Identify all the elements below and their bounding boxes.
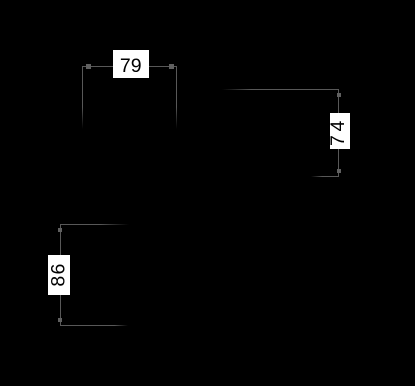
label 79 bbox=[113, 50, 149, 78]
node: right end marker of 79 bbox=[169, 64, 174, 69]
wire: top extension line of 74 bbox=[222, 89, 339, 90]
node: bottom end marker of 86 bbox=[58, 318, 62, 322]
node: top end marker of 86 bbox=[58, 228, 62, 232]
wire: bottom extension line of 74 bbox=[311, 176, 339, 177]
wire: top extension line of 86 bbox=[60, 224, 129, 225]
wire: dimension line 79 bbox=[82, 66, 177, 67]
wire: left extension line of 79 bbox=[82, 66, 83, 130]
wire: dimension line 86 bbox=[60, 224, 61, 326]
label 86 bbox=[48, 255, 71, 295]
node: bottom end marker of 74 bbox=[337, 169, 341, 173]
wire: right extension line of 79 bbox=[176, 66, 177, 130]
node: top end marker of 74 bbox=[337, 93, 341, 97]
wire: dimension line 74 bbox=[338, 89, 339, 176]
label 74 bbox=[330, 113, 350, 150]
node: left end marker of 79 bbox=[86, 64, 91, 69]
wire: bottom extension line of 86 bbox=[60, 325, 128, 326]
